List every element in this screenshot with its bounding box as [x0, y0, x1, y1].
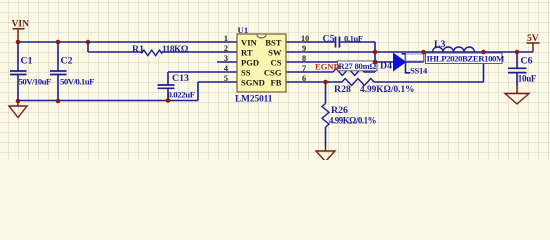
- svg-text:5V: 5V: [527, 33, 539, 44]
- svg-text:7: 7: [302, 64, 306, 73]
- svg-text:EGND: EGND: [315, 62, 340, 72]
- svg-text:R27 80mΩ: R27 80mΩ: [339, 61, 377, 71]
- svg-text:FB: FB: [271, 77, 282, 87]
- svg-text:VIN: VIN: [241, 37, 258, 47]
- svg-text:10: 10: [301, 34, 309, 43]
- svg-text:C5: C5: [323, 34, 335, 45]
- svg-text:CSG: CSG: [264, 67, 282, 77]
- svg-text:C2: C2: [61, 56, 73, 67]
- svg-text:R26: R26: [331, 105, 348, 116]
- svg-text:3: 3: [224, 54, 228, 63]
- svg-text:5: 5: [224, 74, 228, 83]
- svg-text:SGND: SGND: [241, 77, 265, 87]
- svg-text:C6: C6: [521, 56, 533, 67]
- svg-text:PGD: PGD: [241, 57, 259, 67]
- svg-text:U1: U1: [238, 25, 249, 35]
- svg-text:D4: D4: [380, 61, 392, 72]
- svg-text:8: 8: [302, 54, 306, 63]
- svg-text:L3: L3: [434, 39, 446, 50]
- svg-text:CS: CS: [271, 57, 282, 67]
- svg-text:4.99KΩ/0.1%: 4.99KΩ/0.1%: [329, 116, 377, 126]
- svg-text:0.022uF: 0.022uF: [168, 90, 195, 100]
- svg-text:4.99KΩ/0.1%: 4.99KΩ/0.1%: [360, 85, 414, 95]
- svg-text:LM25011: LM25011: [235, 95, 273, 105]
- svg-text:BST: BST: [265, 37, 282, 47]
- svg-text:R1: R1: [132, 44, 144, 55]
- svg-text:118KΩ: 118KΩ: [162, 45, 189, 55]
- svg-text:2: 2: [224, 44, 228, 53]
- svg-text:4: 4: [224, 64, 228, 73]
- svg-text:50V/10uF: 50V/10uF: [19, 77, 51, 87]
- svg-text:9: 9: [302, 44, 306, 53]
- svg-text:SW: SW: [268, 47, 282, 57]
- svg-text:C13: C13: [172, 73, 189, 84]
- svg-text:50V/0.1uF: 50V/0.1uF: [60, 77, 94, 87]
- svg-text:SS: SS: [241, 67, 251, 77]
- svg-text:10uF: 10uF: [518, 74, 537, 84]
- svg-text:6: 6: [302, 74, 306, 83]
- svg-text:1: 1: [224, 34, 228, 43]
- svg-text:VIN: VIN: [12, 19, 30, 30]
- svg-text:0.1uF: 0.1uF: [344, 34, 363, 44]
- svg-text:RT: RT: [241, 47, 253, 57]
- svg-text:C1: C1: [21, 56, 33, 67]
- svg-text:SS14: SS14: [410, 66, 428, 76]
- svg-text:IHLP2020BZER100M: IHLP2020BZER100M: [427, 53, 506, 63]
- svg-text:R28: R28: [334, 84, 351, 95]
